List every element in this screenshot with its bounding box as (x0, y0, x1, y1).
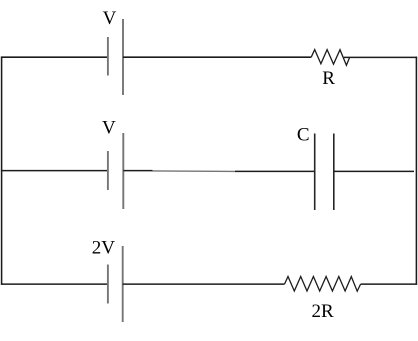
wire top-left (rail to battery V) (1, 56, 108, 58)
battery V (top) long plate (122, 19, 124, 95)
svg-text:C: C (297, 125, 310, 146)
capacitor C left plate (314, 134, 316, 211)
wire bottom-left (rail to battery 2V) (1, 283, 108, 285)
resistor 2R (285, 277, 361, 292)
left rail wire (1, 57, 3, 285)
wire bottom-right (resistor to rail) (361, 283, 418, 285)
right rail wire (415, 57, 417, 285)
svg-text:V: V (103, 8, 117, 29)
wire top-right (resistor to rail) (344, 56, 417, 58)
svg-text:2V: 2V (92, 238, 116, 259)
resistor R (311, 50, 349, 66)
wire middle (gray slanted segment) (153, 170, 236, 173)
capacitor C right plate (333, 134, 335, 211)
wire top-middle (battery to resistor R) (123, 56, 311, 58)
wire middle (to capacitor, dark part) (235, 170, 315, 172)
wire middle (battery toward capacitor, dark part) (123, 170, 152, 172)
svg-text:2R: 2R (312, 301, 335, 322)
battery V (middle) long plate (122, 133, 124, 209)
svg-text:V: V (102, 118, 116, 139)
wire middle-left (rail to battery V) (1, 170, 108, 172)
battery V (middle) short plate (107, 151, 109, 190)
svg-text:R: R (322, 68, 335, 89)
wire middle-right (capacitor to rail, ends just short) (334, 170, 414, 172)
battery V (top) short plate (107, 37, 109, 76)
battery 2V long plate (122, 246, 124, 322)
wire bottom-middle (battery to resistor 2R) (123, 283, 285, 285)
battery 2V short plate (107, 265, 109, 304)
